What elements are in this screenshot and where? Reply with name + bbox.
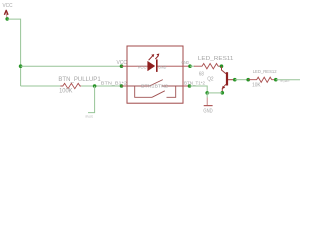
svg-text:GND: GND bbox=[158, 65, 166, 70]
net label VCC bbox=[117, 60, 128, 66]
wire VCC to S1 VCC pin bbox=[21, 65, 122, 67]
LED emission arrows bbox=[149, 54, 160, 61]
wire row2 resistor to pin bbox=[81, 85, 121, 87]
wire S1 BTN2 pin to GND junction bbox=[190, 86, 208, 93]
transistor Q2 label bbox=[207, 76, 213, 82]
value 100K bbox=[59, 88, 72, 94]
supply VCC arrow symbol bbox=[4, 10, 8, 17]
pin connection dot LED_RES12 left bbox=[246, 78, 250, 82]
svg-text:VCC: VCC bbox=[3, 3, 13, 9]
resistor BTN_PULLUP1 bbox=[60, 83, 81, 88]
supply GND symbol bbox=[204, 98, 213, 106]
svg-text:GND: GND bbox=[182, 60, 190, 65]
svg-text:VCC: VCC bbox=[137, 65, 146, 70]
label LED_RES12 bbox=[253, 69, 277, 74]
svg-text:BTN_LED1*2: BTN_LED1*2 bbox=[281, 79, 290, 83]
pin BTN2 (right mid) bbox=[183, 85, 190, 87]
wire stub down to net end bbox=[88, 86, 95, 113]
wire row2 left segment bbox=[21, 85, 61, 87]
junction VCC rail to row1 bbox=[19, 64, 23, 68]
svg-text:100K: 100K bbox=[59, 88, 72, 94]
supply GND label bbox=[203, 108, 212, 114]
LED cathode line bbox=[158, 65, 184, 67]
LED D inside S1: anode line bbox=[127, 65, 148, 67]
svg-text:LED_RES12: LED_RES12 bbox=[253, 69, 277, 74]
svg-text:BTN_PULLUP1: BTN_PULLUP1 bbox=[58, 76, 101, 83]
wire GND junction down bbox=[206, 93, 208, 98]
net label tiny right bbox=[281, 79, 290, 83]
transistor Q2 base lead bbox=[228, 79, 235, 81]
pin names BTN1 BTN2 (inside) bbox=[141, 83, 168, 88]
pin connection dot Q2 base bbox=[233, 78, 237, 82]
transistor Q2 base bar bbox=[226, 72, 228, 85]
net label GND (row1 right) bbox=[182, 60, 190, 65]
switch upper blade bbox=[150, 80, 163, 86]
value 68 bbox=[199, 71, 204, 77]
wire GND junction to Q2 emitter bbox=[207, 92, 222, 94]
resistor LED_RES11 bbox=[194, 63, 221, 68]
wire LED_RES12 to edge bbox=[276, 79, 300, 81]
switch upper contact line left bbox=[127, 85, 150, 87]
svg-text:GND: GND bbox=[203, 108, 212, 114]
pin dot VCC supply bbox=[5, 17, 9, 21]
net label tiny BTN_B1*2 bbox=[86, 115, 94, 119]
svg-text:LED_RES11: LED_RES11 bbox=[198, 56, 234, 62]
pin connection dot S1 BTN1 bbox=[120, 84, 124, 88]
net label BTN_T1*2 bbox=[184, 80, 206, 85]
svg-text:BTN_T1*2: BTN_T1*2 bbox=[184, 80, 206, 85]
switch upper contact line right bbox=[162, 85, 184, 87]
resistor LED_RES12 bbox=[248, 77, 275, 82]
value 10K bbox=[252, 83, 261, 89]
pin connection dot S1 VCC bbox=[120, 64, 124, 68]
label LED_RES11 bbox=[198, 56, 234, 62]
LED cathode bar bbox=[156, 59, 158, 72]
switch lower blade bbox=[152, 91, 165, 98]
net label BTN_B1*2 bbox=[101, 80, 128, 85]
label BTN_PULLUP1 bbox=[58, 76, 101, 83]
svg-text:BTN_B1*2: BTN_B1*2 bbox=[86, 115, 94, 119]
svg-text:BTN1BTN2: BTN1BTN2 bbox=[141, 83, 168, 88]
wire Q2 base to LED_RES12 bbox=[235, 79, 248, 81]
svg-text:68: 68 bbox=[199, 71, 204, 77]
supply VCC label bbox=[3, 3, 13, 9]
pin BTN1 (left mid) bbox=[122, 85, 128, 87]
svg-text:10K: 10K bbox=[252, 83, 261, 89]
junction LED_RES11 to Q2 collector bbox=[220, 64, 224, 68]
pin connection dot S1 BTN2 bbox=[188, 84, 192, 88]
LED triangle bbox=[148, 61, 155, 71]
wire S1 GND pin to LED_RES11 bbox=[190, 65, 195, 67]
svg-text:BTN_B1*2: BTN_B1*2 bbox=[101, 80, 128, 85]
transistor Q2 emitter lead with arrow bbox=[222, 84, 226, 93]
pin name GND (inside, LED row) bbox=[158, 65, 166, 70]
switch lower branch left leg bbox=[135, 86, 152, 97]
switch lower branch right leg bbox=[167, 86, 176, 97]
svg-text:Q2: Q2 bbox=[207, 76, 213, 82]
switch/LED module S1 box bbox=[127, 46, 183, 103]
pin connection dot S1 GND bbox=[188, 64, 192, 68]
junction GND node bbox=[205, 91, 209, 95]
transistor Q2 collector lead bbox=[222, 66, 227, 74]
junction row2 branch bbox=[93, 84, 97, 88]
pin connection dot LED_RES12 right bbox=[274, 78, 278, 82]
pin name VCC (inside, LED row) bbox=[137, 65, 146, 70]
pin connection dot Q2 emitter bbox=[221, 91, 225, 95]
pin VCC (left top) bbox=[122, 65, 128, 67]
pin GND (right top) bbox=[183, 65, 190, 67]
wire VCC rail bbox=[7, 19, 20, 86]
